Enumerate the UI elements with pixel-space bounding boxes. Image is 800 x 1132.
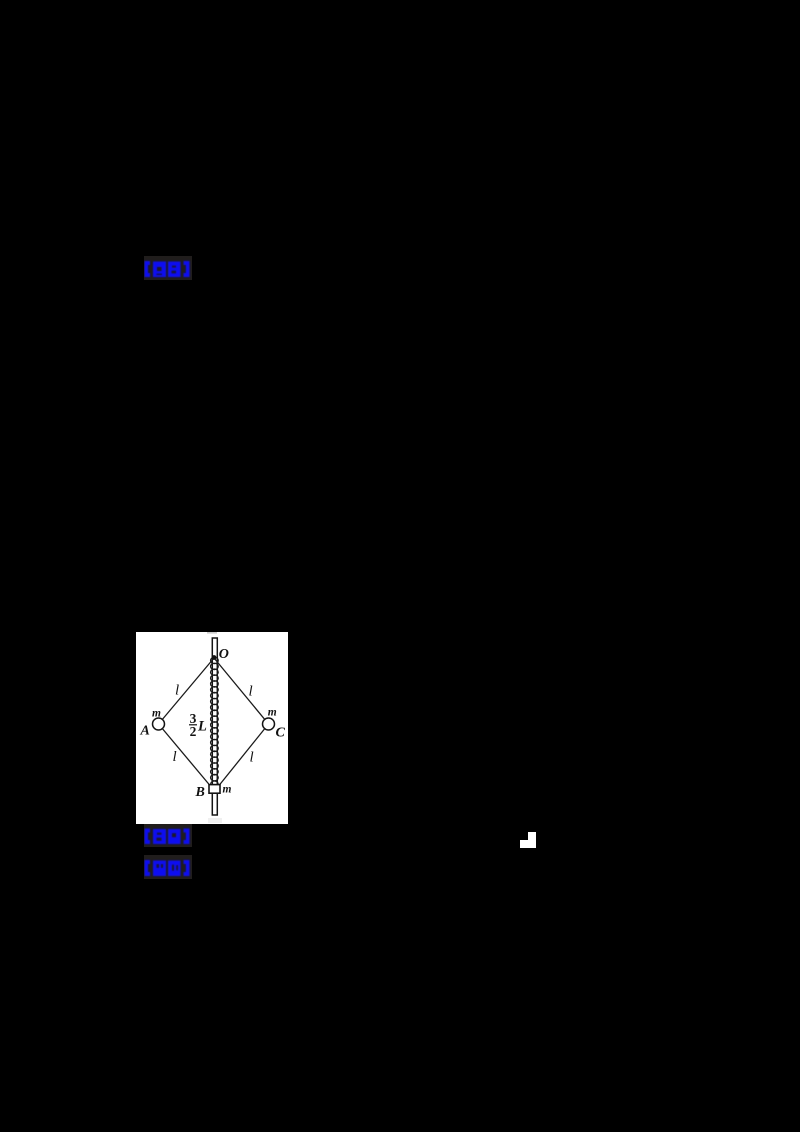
label tag 【考点】: [144, 824, 192, 847]
faint gray smudge below rod bottom: [208, 818, 222, 823]
svg-text:m: m: [223, 784, 232, 796]
svg-text:l: l: [173, 749, 177, 765]
svg-text:l: l: [250, 750, 254, 766]
string O-A: [159, 658, 215, 724]
string O-C: [214, 658, 269, 724]
ball A: [153, 718, 165, 730]
svg-text:A: A: [140, 724, 150, 739]
svg-text:l: l: [249, 684, 253, 700]
string A-B: [159, 724, 211, 786]
string C-B: [219, 724, 269, 786]
diagram figure box: [136, 632, 288, 824]
svg-text:l: l: [175, 683, 179, 699]
white step shape (clipped formula image corner): [520, 832, 536, 848]
svg-text:2: 2: [190, 724, 197, 739]
label tag 【答案】: [144, 256, 192, 280]
vertical rod (double line): [212, 638, 217, 815]
white figure background: [136, 632, 288, 824]
svg-text:O: O: [219, 647, 229, 662]
spring coil on rod: [211, 657, 219, 787]
svg-text:L: L: [197, 719, 207, 735]
svg-text:C: C: [276, 726, 286, 741]
slider B square: [209, 785, 220, 794]
svg-text:m: m: [152, 708, 161, 720]
svg-text:m: m: [268, 707, 277, 719]
faint mark above rod top: [207, 632, 217, 634]
fraction bar: [189, 724, 197, 726]
node O dot: [212, 655, 217, 660]
label tag 【分析】: [144, 855, 192, 879]
ball C: [263, 718, 275, 730]
svg-text:B: B: [195, 785, 205, 800]
